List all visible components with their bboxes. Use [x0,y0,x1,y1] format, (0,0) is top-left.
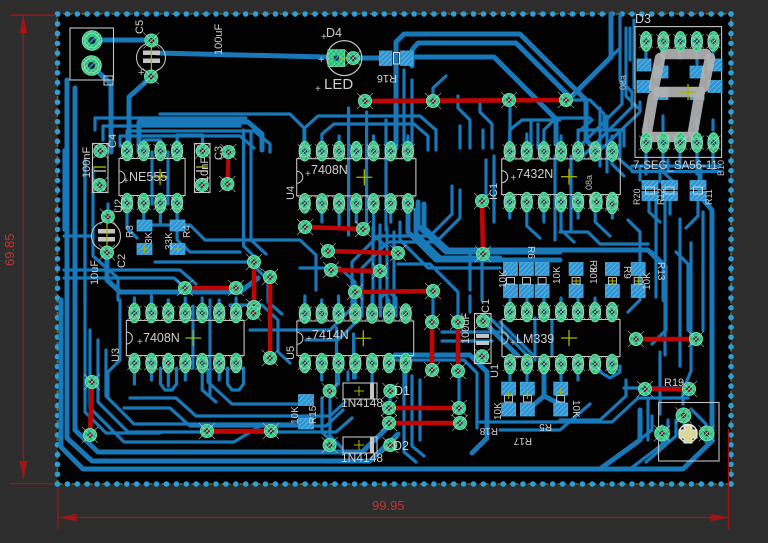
wire [576,204,579,218]
wire [372,136,375,151]
wire [550,320,553,356]
wire [201,298,204,314]
wire [335,328,338,386]
wire [90,330,262,442]
wire [480,318,518,356]
wire [630,420,668,469]
wire [166,152,169,204]
capacitor C4 [81,134,119,193]
capacitor C5 [134,20,166,85]
wire [93,168,118,300]
wire red net N [381,400,467,416]
svg-text:U3: U3 [110,348,122,362]
svg-text:10K: 10K [290,406,301,424]
wire [64,278,190,292]
wire [566,100,604,128]
wire [492,156,495,222]
svg-text:+: + [137,337,143,348]
svg-text:R5: R5 [539,421,552,432]
wire [542,364,545,380]
wire [544,118,590,152]
svg-text:+: + [510,338,516,349]
wire [644,166,647,174]
wire [628,28,631,60]
wire [406,204,409,222]
wire red net I [347,283,441,300]
wire [632,170,720,173]
wire [678,50,681,58]
wire [218,364,221,380]
wire [408,214,560,260]
svg-text:C4: C4 [107,134,119,148]
wire [378,225,381,306]
svg-text:3K: 3K [144,231,155,244]
wire [620,130,634,172]
label 08a left [584,175,594,190]
wire [108,300,120,398]
wire [644,120,647,130]
wire [92,66,111,152]
wire [616,416,652,458]
svg-text:C5: C5 [134,20,146,34]
wire [412,43,570,97]
node U3 right pad [245,305,261,321]
wire [120,136,254,148]
wire [413,57,556,144]
svg-text:7408N: 7408N [143,331,180,345]
svg-text:10K: 10K [642,272,653,290]
diode D2 [322,437,409,465]
wire [632,164,720,167]
wire [354,56,380,61]
wire [661,116,664,130]
wire [431,296,434,316]
wire [167,300,170,314]
wire [404,364,407,390]
wire [612,136,624,176]
svg-text:99.95: 99.95 [372,498,405,513]
svg-text:R8: R8 [587,260,598,273]
wire [480,260,483,300]
wire [542,298,545,312]
svg-text:D1: D1 [394,384,410,398]
wire [458,96,470,148]
svg-text:100uF: 100uF [213,24,225,55]
wire [442,330,502,333]
wire red net G [320,243,406,261]
wire [576,364,579,380]
wire [161,368,177,390]
wire [127,204,137,238]
wire [559,364,562,380]
wire red net J [357,92,574,109]
wire [252,296,255,313]
wire [303,296,306,314]
wire [695,50,698,64]
svg-text:69.85: 69.85 [2,233,17,266]
svg-text:08a: 08a [618,75,628,90]
svg-text:LED: LED [324,76,353,93]
wire [595,204,610,236]
wire [337,296,340,314]
wire [208,300,211,395]
wire [584,92,632,155]
wire [692,410,706,442]
wire [668,198,671,214]
wire [365,112,368,225]
wire [525,364,528,380]
wire [611,204,614,218]
wire [658,352,661,414]
wire [628,220,640,312]
wire [218,300,221,314]
capacitor C3 [213,144,237,192]
svg-text:10K: 10K [498,270,509,288]
wire [388,396,391,406]
wire [338,204,341,228]
wire [536,124,539,148]
svg-text:R16: R16 [377,72,397,84]
wire [251,132,266,254]
resistor cluster R6-R10 (10K smds) [498,246,666,298]
svg-text:B10: B10 [716,160,726,176]
wire red net B [199,423,279,439]
wire [682,412,685,424]
svg-text:R9: R9 [621,266,632,279]
svg-text:U2: U2 [113,199,125,213]
wire [300,268,355,302]
wire [568,14,611,100]
svg-text:R6: R6 [525,246,536,259]
wire [529,120,532,148]
wire [406,136,409,151]
wire [371,228,374,306]
wire [244,130,259,260]
wire [661,50,664,64]
diode D1 [322,383,410,410]
wire [150,152,153,204]
wire [484,160,487,196]
svg-text:C2: C2 [116,254,128,268]
svg-text:R19: R19 [664,377,684,389]
wire [384,120,387,230]
svg-text:R11: R11 [704,189,714,205]
wire [395,360,477,428]
wire red net M [450,314,466,379]
wire [167,364,170,386]
wire [142,204,145,222]
wire red net F [297,219,371,237]
wire [544,396,560,404]
wire [424,204,664,300]
wire [638,166,641,180]
wire [595,364,620,378]
svg-text:100nF: 100nF [81,147,93,178]
wire [330,398,342,448]
wire [150,225,316,290]
wire [533,318,536,360]
svg-text:U5: U5 [285,346,297,360]
svg-text:10nF: 10nF [199,157,211,182]
wire [103,126,240,140]
IC U5 7414N [285,304,414,373]
wire [442,339,492,342]
wire [660,426,663,442]
wire [355,204,358,222]
wire red net H [323,262,388,279]
wire [83,160,86,300]
wire [160,114,304,148]
wire [525,298,528,312]
wire [676,252,688,330]
resistor R3 [125,220,155,255]
svg-text:D2: D2 [393,439,409,453]
wire [695,118,698,130]
wire [578,130,624,146]
wire [354,300,357,314]
wire [387,300,390,314]
IC IC1 7432N [488,142,620,212]
wire [644,151,647,166]
wire [235,298,238,313]
wire [155,262,282,314]
wire [480,100,492,148]
resistor R16 [377,51,413,84]
wire [392,232,395,306]
svg-text:R12: R12 [656,188,666,205]
wire [85,160,160,433]
wire [560,232,648,244]
wire [124,408,343,426]
wire [490,318,528,356]
svg-text:7408N: 7408N [311,163,348,177]
wire [322,398,334,444]
svg-text:R15: R15 [308,405,319,424]
label 7-SEG_SA56-11 [633,160,718,172]
wire [144,140,161,152]
wire [338,136,341,151]
wire [468,250,471,290]
wire red net A [82,374,100,443]
wire [398,264,458,316]
wire [184,298,187,313]
capacitor 10nF [194,143,211,193]
wire [91,38,151,43]
wire [510,120,560,152]
svg-text:LM339: LM339 [516,332,554,346]
wire [624,386,694,389]
wire [107,253,258,292]
connector X2 [654,403,719,462]
capacitor C1 [460,299,492,364]
wire [418,380,421,440]
wire [468,296,471,312]
wire [133,364,136,384]
svg-text:+: + [306,334,312,345]
wire [695,151,698,174]
wire [711,156,714,170]
svg-text:U4: U4 [285,186,297,200]
wire [658,170,661,182]
wire [711,151,714,170]
wire [133,298,136,313]
wire [127,131,270,152]
display D3 (7-segment) [635,12,722,157]
wire [678,219,681,366]
wire [303,136,306,151]
board edge via dots [55,11,734,487]
svg-text:10uF: 10uF [89,260,101,285]
capacitor C2 [89,209,128,285]
wire [711,120,714,130]
wire [322,124,428,152]
svg-text:C1: C1 [480,299,492,313]
wire [433,76,446,101]
wire [596,14,620,72]
wire [605,116,608,172]
wire [508,298,511,312]
wire [652,252,666,344]
label B10 right [716,160,726,176]
wire [542,204,545,218]
svg-text:R18: R18 [479,425,498,436]
wire [320,364,323,380]
wire [598,108,601,166]
svg-text:+: + [123,176,129,187]
wire [632,20,635,88]
wire [481,130,484,148]
wire [569,156,572,230]
wire [159,204,162,222]
svg-text:R13: R13 [655,262,666,281]
wire [306,190,460,340]
wire [666,160,669,172]
resistor R4 [164,220,193,255]
node pads below 7-seg [590,192,620,214]
dimension 69.85 (left) [2,15,56,483]
svg-text:R3: R3 [125,225,136,238]
wire [400,222,500,268]
wire [157,53,325,57]
wire [508,204,511,218]
wire [592,102,640,158]
wire [228,368,244,390]
wire [458,126,461,148]
wire [337,364,340,384]
wire [574,84,622,152]
wire red net E [262,269,278,366]
wire [663,198,666,355]
wire [75,88,388,452]
wire [508,364,511,380]
wire [663,151,676,184]
svg-text:NE555: NE555 [129,170,167,184]
svg-text:+: + [318,54,324,66]
wire [177,135,203,152]
wire [385,228,388,308]
wire [654,198,657,297]
svg-text:33K: 33K [164,232,175,250]
wire [184,364,187,380]
wire [354,364,357,378]
wire [683,243,691,404]
wire [64,270,196,284]
resistor cluster below LM339 [479,382,581,446]
svg-text:08a: 08a [584,175,594,190]
wire [410,80,413,146]
wire [371,296,374,314]
wire [150,296,153,314]
svg-text:7414N: 7414N [312,328,349,342]
wire [578,120,592,152]
wire [560,380,626,420]
wire [395,355,487,453]
wire [106,350,300,424]
wire [64,234,92,237]
wire [620,40,632,92]
wire [711,50,714,58]
svg-text:R20: R20 [632,188,642,205]
wire [347,108,350,235]
wire [644,50,647,60]
wire [626,28,638,108]
svg-text:10K: 10K [552,266,563,284]
wire red net Q [637,381,697,397]
wire [208,370,300,404]
wire red net D [246,254,262,315]
wire [508,104,511,148]
wire [457,377,460,403]
wire [352,334,355,378]
wire [396,34,594,148]
wire [553,156,556,240]
wire [416,210,500,258]
wire [177,204,240,252]
wire [402,70,405,146]
wire [593,298,596,312]
label 100uF top [213,24,225,55]
svg-text:7-SEG_SA56-11: 7-SEG_SA56-11 [633,160,718,172]
wire [346,372,349,380]
wire [389,204,392,222]
svg-text:U1: U1 [489,364,501,378]
wire [527,204,540,238]
wire [61,170,712,469]
wire [696,160,699,172]
svg-text:D4: D4 [326,26,342,40]
resistor R15 [290,395,319,430]
wire [98,340,352,432]
wire red net O [381,415,468,431]
wire [130,398,345,416]
svg-text:R17: R17 [513,435,532,446]
wire [381,291,397,316]
wire [320,300,323,314]
wire [646,420,676,462]
svg-text:7432N: 7432N [517,167,554,181]
wire [530,366,544,408]
wire [202,364,216,402]
dimension 99.95 (bottom) [58,429,729,529]
resistor cluster below 7-seg [632,181,714,206]
IC U1 LM339 [489,302,620,378]
wire [412,376,424,456]
wire [418,202,560,252]
wire [542,204,545,222]
wire [191,306,194,368]
wire [600,410,640,469]
wire [500,322,534,356]
